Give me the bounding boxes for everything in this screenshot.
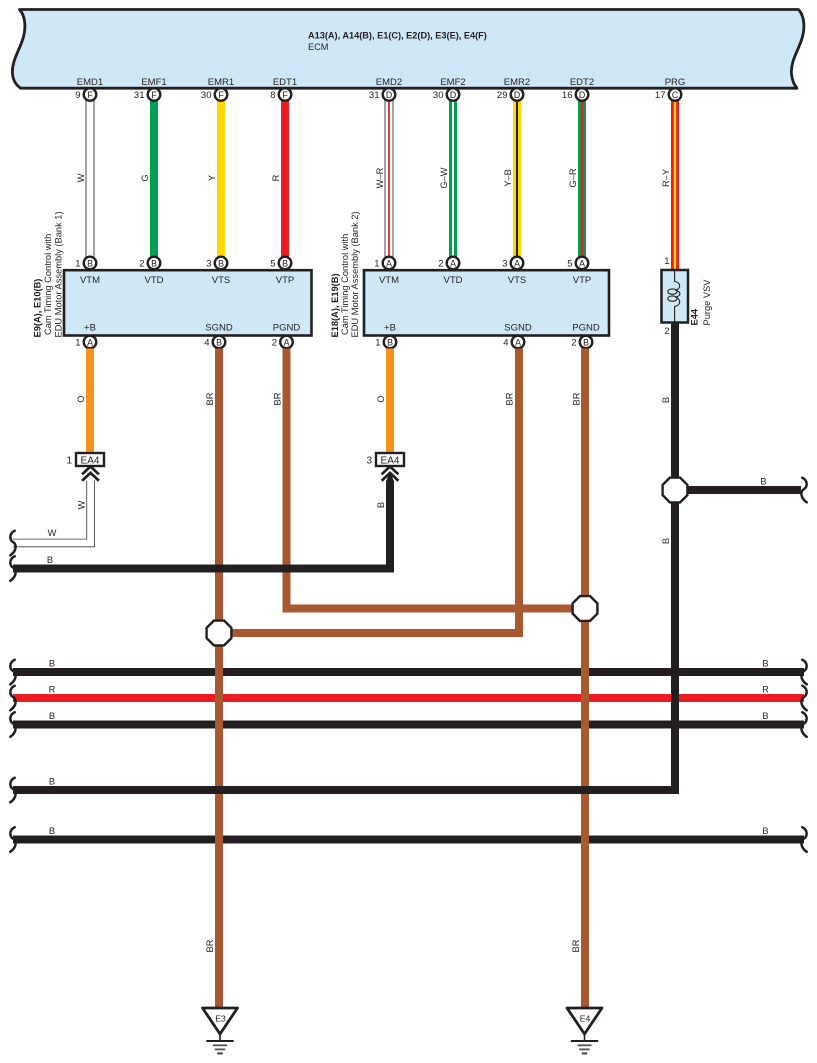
break symbol on junction wire B [801, 478, 806, 503]
svg-text:O: O [376, 395, 386, 402]
connector EA4 pin 3 [366, 453, 404, 466]
wire B from junction node down to fourth B bus [13, 490, 675, 790]
svg-text:1: 1 [66, 455, 72, 466]
svg-text:E4: E4 [580, 1014, 591, 1024]
svg-text:EDT2: EDT2 [570, 77, 594, 88]
svg-text:30: 30 [201, 90, 212, 101]
bus wire B fifth (full width) [13, 836, 804, 844]
svg-text:B: B [376, 502, 386, 508]
wire G-R EDT2 [578, 101, 586, 258]
svg-text:31: 31 [369, 90, 380, 101]
svg-text:B: B [49, 659, 55, 669]
wire BR from Bank1 SGND to ground E3 [215, 349, 223, 1010]
svg-text:R–Y: R–Y [661, 169, 671, 187]
Bank2 top pin 1(A) [374, 257, 395, 270]
svg-text:2: 2 [438, 258, 443, 269]
break symbol bus3 left [10, 712, 15, 737]
junction node on BR (Bank2 PGND) [573, 596, 598, 621]
wire B from junction node to right edge break [675, 486, 801, 494]
wire G EMF1 [150, 101, 158, 258]
break symbol on wire B [10, 556, 15, 581]
svg-text:A: A [515, 337, 521, 347]
svg-text:O: O [76, 395, 86, 402]
wire W-R EMD2 [385, 101, 393, 258]
svg-text:B: B [661, 538, 671, 544]
svg-text:3: 3 [206, 258, 211, 269]
svg-text:1: 1 [374, 258, 379, 269]
svg-text:C: C [672, 90, 679, 100]
svg-text:2: 2 [571, 337, 576, 348]
svg-text:E18(A), E19(B): E18(A), E19(B) [330, 273, 340, 337]
Bank1 top pin 5(B) [270, 257, 291, 270]
svg-text:E44: E44 [690, 308, 700, 325]
svg-text:B: B [87, 258, 93, 268]
svg-text:8: 8 [270, 90, 275, 101]
svg-text:A13(A), A14(B), E1(C), E2(D),: A13(A), A14(B), E1(C), E2(D), E3(E), E4(… [308, 31, 487, 41]
svg-text:VTS: VTS [212, 275, 230, 286]
bus wire B third (full width) [13, 721, 804, 729]
svg-text:EMD1: EMD1 [77, 77, 103, 88]
ECM connector pin 31(F) for EMF1 [134, 88, 160, 101]
svg-text:Y: Y [207, 175, 217, 181]
svg-text:D: D [386, 90, 392, 100]
svg-text:W: W [77, 500, 87, 509]
Bank1 bottom pin 1(A) [75, 336, 96, 349]
svg-text:+B: +B [84, 323, 96, 334]
wire BR from Bank2 PGND to ground E4 [581, 349, 589, 1010]
svg-text:ECM: ECM [308, 42, 328, 52]
svg-text:2: 2 [139, 258, 144, 269]
svg-text:B: B [583, 337, 589, 347]
bus wire B first (full width) [13, 668, 804, 676]
svg-text:EDU Motor Assembly (Bank 2): EDU Motor Assembly (Bank 2) [350, 211, 360, 337]
svg-text:5: 5 [567, 258, 572, 269]
ECM connector pin 30(F) for EMR1 [201, 88, 227, 101]
ground E4 [567, 1008, 602, 1053]
Bank2 top pin 5(A) [567, 257, 588, 270]
svg-text:Y–B: Y–B [503, 169, 513, 187]
svg-text:4: 4 [204, 337, 209, 348]
break symbol bus1 left [10, 660, 15, 685]
break symbol bus5 right [801, 827, 806, 852]
svg-text:B: B [762, 659, 768, 669]
svg-text:BR: BR [205, 392, 215, 405]
svg-text:B: B [49, 777, 55, 787]
svg-text:R: R [762, 685, 769, 695]
wire BR from Bank1 PGND to junction node [287, 349, 586, 609]
Bank1 bottom pin 2(A) [272, 336, 293, 349]
svg-text:A: A [514, 258, 520, 268]
Bank1 top pin 3(B) [206, 257, 227, 270]
ECM connector pin 16(D) for EDT2 [562, 88, 588, 101]
svg-text:A: A [450, 258, 456, 268]
svg-text:E3: E3 [215, 1014, 226, 1024]
svg-text:EDT1: EDT1 [273, 77, 297, 88]
bus wire R (full width) [13, 694, 804, 702]
svg-text:Cam Timing Control with: Cam Timing Control with [43, 234, 53, 335]
svg-text:B: B [49, 826, 55, 836]
svg-text:9: 9 [75, 90, 80, 101]
Bank2 top pin 2(A) [438, 257, 459, 270]
svg-text:A: A [284, 337, 290, 347]
svg-text:B: B [218, 258, 224, 268]
wire B from left edge break to EA4 pin 3 arrow [13, 481, 390, 569]
junction node on BR (Bank1 SGND) [207, 621, 232, 646]
svg-text:G: G [140, 174, 150, 181]
junction node on Purge VSV B wire [663, 478, 688, 503]
svg-text:B: B [49, 711, 55, 721]
ECM connector pin 9(F) for EMD1 [75, 88, 96, 101]
break symbol bus2 left [10, 686, 15, 711]
svg-text:EMF1: EMF1 [141, 77, 166, 88]
ECM box A13(A), A14(B), E1(C), E2(D), E3(E), E4(F) [12, 10, 804, 89]
svg-text:SGND: SGND [205, 323, 233, 334]
svg-text:D: D [514, 90, 520, 100]
svg-text:E9(A), E10(B): E9(A), E10(B) [33, 279, 43, 338]
wire W EMD1 [86, 101, 94, 258]
svg-text:VTM: VTM [379, 275, 399, 286]
svg-text:BR: BR [505, 392, 515, 405]
arrowhead fill at EA4 pin 3 [386, 471, 394, 481]
wire Y EMR1 [217, 101, 225, 258]
Bank1 top pin 1(B) [75, 257, 96, 270]
svg-text:17: 17 [655, 90, 666, 101]
svg-text:PGND: PGND [273, 323, 301, 334]
solenoid coil Purge VSV E44 [662, 256, 689, 337]
svg-text:W: W [48, 528, 57, 538]
wire O from Bank1 +B to EA4 pin 1 [86, 349, 94, 453]
svg-text:1: 1 [375, 337, 380, 348]
svg-text:3: 3 [502, 258, 507, 269]
svg-text:B: B [151, 258, 157, 268]
arrow up to EA4 pin 3 [383, 467, 398, 480]
svg-text:R: R [271, 174, 281, 181]
svg-text:B: B [661, 397, 671, 403]
svg-text:+B: +B [384, 323, 396, 334]
svg-text:EMF2: EMF2 [440, 77, 465, 88]
svg-text:VTP: VTP [573, 275, 591, 286]
svg-text:A: A [87, 337, 93, 347]
svg-text:BR: BR [205, 939, 215, 952]
svg-text:A: A [579, 258, 585, 268]
svg-text:F: F [151, 90, 157, 100]
svg-text:3: 3 [366, 455, 372, 466]
svg-text:B: B [282, 258, 288, 268]
ground E3 [203, 1008, 238, 1053]
svg-text:EDU Motor Assembly (Bank 1): EDU Motor Assembly (Bank 1) [54, 211, 64, 337]
wire O from Bank2 +B to EA4 pin 3 [386, 349, 394, 453]
break symbol bus5 left [10, 827, 15, 852]
svg-text:EA4: EA4 [381, 455, 400, 466]
arrow up to EA4 pin 1 [83, 467, 98, 480]
svg-text:B: B [47, 555, 53, 565]
svg-text:W: W [76, 173, 86, 182]
svg-text:EMD2: EMD2 [376, 77, 402, 88]
svg-text:EA4: EA4 [81, 455, 100, 466]
svg-text:BR: BR [572, 392, 582, 405]
svg-text:B: B [762, 711, 768, 721]
wire W from EA4 arrow to left edge break [13, 481, 91, 544]
svg-text:B: B [216, 337, 222, 347]
svg-text:VTD: VTD [444, 275, 463, 286]
Cam Timing Control EDU Motor Assembly Bank 1 box E9(A), E10(B) [64, 270, 312, 335]
svg-text:B: B [760, 477, 766, 487]
wire G-W EMF2 [449, 101, 457, 258]
Bank2 top pin 3(A) [502, 257, 523, 270]
svg-text:F: F [282, 90, 288, 100]
ECM connector pin 31(D) for EMD2 [369, 88, 395, 101]
wire R EDT1 [281, 101, 289, 258]
Bank1 top pin 2(B) [139, 257, 160, 270]
Bank2 bottom pin 4(A) [503, 336, 524, 349]
break symbol on wire W [10, 531, 15, 556]
Bank1 bottom pin 4(B) [204, 336, 225, 349]
svg-text:31: 31 [134, 90, 145, 101]
svg-text:VTM: VTM [80, 275, 100, 286]
svg-text:EMR1: EMR1 [208, 77, 234, 88]
wire Y-B EMR2 [513, 101, 521, 258]
svg-text:29: 29 [497, 90, 508, 101]
svg-text:G–R: G–R [568, 168, 578, 187]
svg-text:BR: BR [571, 939, 581, 952]
svg-text:W–R: W–R [375, 167, 385, 188]
Bank2 bottom pin 1(B) [375, 336, 396, 349]
svg-text:2: 2 [664, 326, 669, 337]
svg-text:BR: BR [273, 392, 283, 405]
svg-text:EMR2: EMR2 [504, 77, 530, 88]
break symbol bus2 right [801, 686, 806, 711]
wire R-Y PRG to Purge VSV [671, 101, 679, 272]
svg-text:Cam Timing Control with: Cam Timing Control with [340, 234, 350, 335]
svg-text:1: 1 [75, 258, 80, 269]
break symbol bus1 right [801, 660, 806, 685]
svg-text:16: 16 [562, 90, 573, 101]
svg-text:4: 4 [503, 337, 508, 348]
ECM connector pin 17(C) for PRG [655, 88, 681, 101]
svg-text:1: 1 [75, 337, 80, 348]
svg-text:VTS: VTS [508, 275, 526, 286]
svg-text:D: D [450, 90, 456, 100]
wire B from Purge VSV pin 2 to junction node [671, 322, 679, 490]
ECM connector pin 29(D) for EMR2 [497, 88, 523, 101]
break symbol bus3 right [801, 712, 806, 737]
svg-text:F: F [218, 90, 224, 100]
svg-text:SGND: SGND [504, 323, 532, 334]
svg-text:D: D [579, 90, 585, 100]
svg-text:A: A [386, 258, 392, 268]
Bank2 bottom pin 2(B) [571, 336, 592, 349]
svg-text:VTP: VTP [276, 275, 294, 286]
break symbol bus4 left [10, 778, 15, 803]
ECM connector pin 30(D) for EMF2 [433, 88, 459, 101]
connector EA4 pin 1 [66, 453, 104, 466]
svg-text:30: 30 [433, 90, 444, 101]
svg-text:B: B [387, 337, 393, 347]
svg-text:2: 2 [272, 337, 277, 348]
svg-text:F: F [87, 90, 93, 100]
svg-text:PGND: PGND [572, 323, 600, 334]
svg-text:VTD: VTD [145, 275, 164, 286]
svg-text:5: 5 [270, 258, 275, 269]
svg-text:G–W: G–W [439, 167, 449, 188]
ECM connector pin 8(F) for EDT1 [270, 88, 291, 101]
svg-text:R: R [49, 685, 56, 695]
svg-text:B: B [762, 826, 768, 836]
svg-text:PRG: PRG [665, 77, 686, 88]
Cam Timing Control EDU Motor Assembly Bank 2 box E18(A), E19(B) [364, 270, 609, 335]
svg-text:1: 1 [664, 256, 669, 267]
svg-text:Purge VSV: Purge VSV [702, 279, 712, 326]
wire BR from Bank2 SGND to junction node [219, 349, 519, 634]
